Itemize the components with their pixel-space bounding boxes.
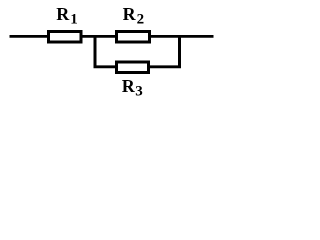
svg-text:R3: R3 [122,76,143,100]
svg-text:R1: R1 [56,4,78,28]
wire: main horizontal from left terminal to right terminal [10,35,214,38]
wire: right vertical of parallel branch [178,35,181,67]
resistor R1 [49,32,82,43]
wire: left vertical of parallel branch [94,35,97,67]
svg-text:R2: R2 [123,4,145,28]
resistor R2 [117,32,150,43]
resistor R3 [117,62,149,73]
wire: bottom branch horizontal [94,65,182,68]
